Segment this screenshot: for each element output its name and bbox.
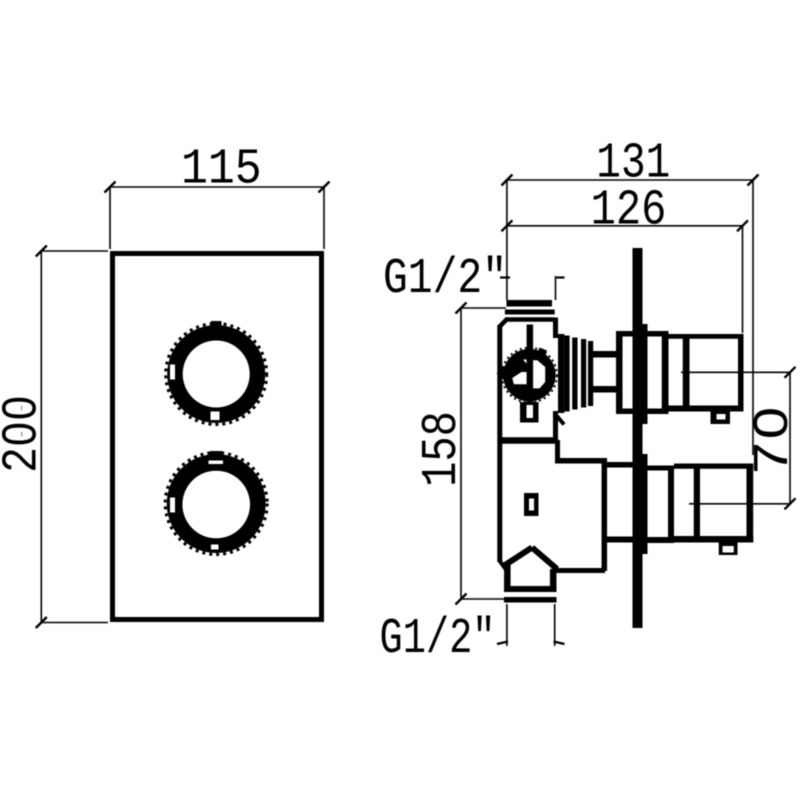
bottom port thread xyxy=(504,565,557,603)
knob ring 1 (front view upper) xyxy=(166,321,267,425)
bottom knob neck xyxy=(605,462,633,543)
svg-text:G1/2": G1/2" xyxy=(383,251,507,308)
top knob notch xyxy=(711,412,731,425)
thermostat bolt xyxy=(520,325,539,423)
dimension 158 xyxy=(456,303,507,605)
valve cap top xyxy=(505,300,555,315)
extension line right 131 xyxy=(752,180,754,455)
front plate xyxy=(113,254,322,620)
leader G1/2 top xyxy=(500,276,565,300)
dimension 70 xyxy=(681,367,796,510)
bottom knob (side view) xyxy=(648,464,754,544)
leader G1/2 bottom xyxy=(497,604,565,646)
thermostat circle assembly xyxy=(497,348,557,403)
svg-text:115: 115 xyxy=(181,142,262,199)
extension line right 126 xyxy=(742,226,744,333)
wall plate bar (side view) xyxy=(633,248,648,628)
stem to top knob xyxy=(593,351,616,393)
dimension 200 xyxy=(36,246,108,629)
svg-text:G1/2": G1/2" xyxy=(380,611,496,668)
knob ring 2 (front view lower) xyxy=(165,451,267,555)
dimension 131 xyxy=(501,175,758,186)
svg-text:200: 200 xyxy=(0,395,51,473)
bottom knob notch xyxy=(719,543,738,556)
cartridge cone ribs xyxy=(558,334,593,413)
dimension 126 xyxy=(501,220,748,231)
svg-text:158: 158 xyxy=(414,411,471,487)
svg-text:126: 126 xyxy=(591,183,667,240)
extension line left shared (131/126) xyxy=(506,180,508,300)
top knob (side view) xyxy=(616,331,744,414)
svg-text:70: 70 xyxy=(746,406,800,476)
valve body outline xyxy=(499,318,605,572)
dimension 115 xyxy=(105,182,330,250)
screw hole in body xyxy=(524,493,539,516)
bottom port cone xyxy=(499,548,557,570)
